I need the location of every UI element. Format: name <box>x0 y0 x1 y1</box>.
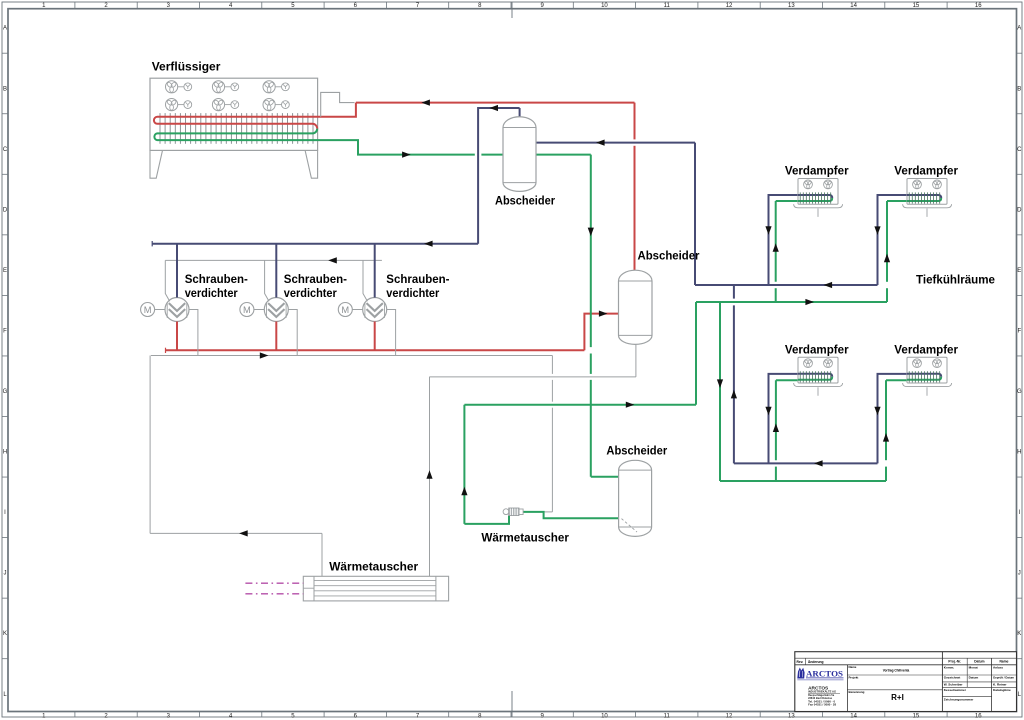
svg-text:Zeichnungsnummer: Zeichnungsnummer <box>944 697 974 701</box>
svg-text:Name: Name <box>1000 660 1009 664</box>
svg-text:11: 11 <box>664 3 671 9</box>
svg-text:Fax 04531 / 5090 - 28: Fax 04531 / 5090 - 28 <box>808 702 836 706</box>
svg-text:verdichter: verdichter <box>284 286 337 300</box>
svg-text:Abscheider: Abscheider <box>495 194 555 208</box>
svg-text:Datum: Datum <box>969 675 979 679</box>
svg-text:D: D <box>3 207 8 213</box>
svg-text:16: 16 <box>975 713 982 719</box>
svg-text:C: C <box>3 147 8 153</box>
svg-text:E: E <box>3 268 7 274</box>
svg-text:M: M <box>341 305 349 315</box>
svg-text:G: G <box>3 389 8 395</box>
svg-text:R+I: R+I <box>891 693 904 702</box>
svg-text:J: J <box>4 571 7 577</box>
svg-text:Vortrag Chillventa: Vortrag Chillventa <box>883 669 910 673</box>
svg-text:H: H <box>3 450 7 456</box>
svg-text:10: 10 <box>601 713 608 719</box>
svg-text:Datum: Datum <box>974 660 984 664</box>
svg-text:verdichter: verdichter <box>185 286 238 300</box>
svg-text:A: A <box>1017 26 1021 32</box>
svg-text:Proj.-Nr.: Proj.-Nr. <box>948 660 961 664</box>
svg-text:Tiefkühlräume: Tiefkühlräume <box>916 272 995 286</box>
svg-text:Projekt: Projekt <box>849 675 859 679</box>
svg-text:W. Schreiber: W. Schreiber <box>944 682 964 686</box>
svg-text:Schrauben-: Schrauben- <box>185 272 248 286</box>
svg-text:K. Reiner: K. Reiner <box>993 682 1007 686</box>
svg-text:K: K <box>3 631 7 637</box>
svg-text:Name: Name <box>849 665 857 669</box>
svg-text:Verdampfer: Verdampfer <box>894 343 958 357</box>
svg-text:Verdampfer: Verdampfer <box>785 343 849 357</box>
svg-text:Verflüssiger: Verflüssiger <box>152 60 221 74</box>
svg-text:F: F <box>3 328 7 334</box>
svg-text:E: E <box>1017 268 1021 274</box>
svg-text:Verdampfer: Verdampfer <box>894 164 958 178</box>
svg-text:B: B <box>1017 86 1021 92</box>
svg-text:Rev.: Rev. <box>797 660 804 664</box>
svg-text:Abscheider: Abscheider <box>638 248 700 262</box>
svg-text:ARCTOS: ARCTOS <box>806 669 843 678</box>
svg-text:D: D <box>1017 207 1022 213</box>
svg-text:M: M <box>144 305 152 315</box>
svg-text:15: 15 <box>913 3 920 9</box>
svg-text:G: G <box>1017 389 1022 395</box>
svg-text:12: 12 <box>726 713 733 719</box>
svg-text:13: 13 <box>788 3 795 9</box>
svg-text:Gezeichnet: Gezeichnet <box>944 675 961 679</box>
svg-text:Wärmetauscher: Wärmetauscher <box>481 530 569 544</box>
svg-text:K: K <box>1017 631 1021 637</box>
svg-text:11: 11 <box>664 713 671 719</box>
svg-text:Geprüft / Datum: Geprüft / Datum <box>993 675 1014 679</box>
svg-text:Änderung: Änderung <box>808 660 824 664</box>
svg-text:Monat: Monat <box>969 665 978 669</box>
svg-text:12: 12 <box>726 3 733 9</box>
svg-text:14: 14 <box>850 713 857 719</box>
svg-text:16: 16 <box>975 3 982 9</box>
svg-text:10: 10 <box>601 3 608 9</box>
svg-text:B: B <box>3 86 7 92</box>
svg-text:13: 13 <box>788 713 795 719</box>
svg-text:Abscheider: Abscheider <box>606 444 667 458</box>
svg-text:Kesselnummer: Kesselnummer <box>944 688 967 692</box>
svg-text:14: 14 <box>850 3 857 9</box>
svg-text:Benennung: Benennung <box>849 690 865 694</box>
svg-text:Verdampfer: Verdampfer <box>785 164 849 178</box>
svg-text:Katalogtime: Katalogtime <box>993 688 1011 692</box>
svg-text:Wärmetauscher: Wärmetauscher <box>329 559 418 573</box>
svg-text:Schrauben-: Schrauben- <box>284 272 347 286</box>
svg-text:15: 15 <box>913 713 920 719</box>
svg-text:F: F <box>1017 328 1021 334</box>
svg-text:M: M <box>243 305 251 315</box>
svg-text:Schrauben-: Schrauben- <box>386 272 449 286</box>
svg-text:H: H <box>1017 450 1021 456</box>
svg-text:A: A <box>3 26 7 32</box>
svg-text:verdichter: verdichter <box>386 286 439 300</box>
svg-text:Komm.: Komm. <box>944 665 955 669</box>
svg-text:J: J <box>1018 571 1021 577</box>
svg-text:C: C <box>1017 147 1022 153</box>
svg-text:Anlass: Anlass <box>993 665 1003 669</box>
